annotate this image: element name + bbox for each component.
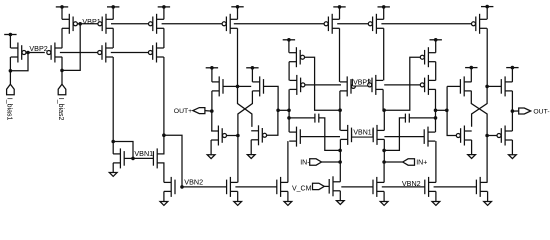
junction node n1b	[485, 85, 489, 89]
svg-text:IN+: IN+	[416, 159, 427, 166]
wire M24 drain to M23 source	[383, 28, 385, 80]
svg-text:VBN1: VBN1	[353, 130, 371, 137]
power stub VDD11	[430, 38, 442, 42]
wire OUT+ port wire	[205, 110, 212, 113]
pmos M5	[98, 43, 113, 63]
power stub VDD1	[4, 33, 16, 37]
wire net VBN2 rail seg6	[434, 186, 477, 188]
wire node n7 to M25 drain	[339, 110, 341, 130]
junction node VBN2 gate	[180, 185, 184, 189]
wire M1 diode feedback	[10, 53, 28, 71]
junction node OUT+	[210, 109, 214, 113]
pmos M21	[340, 76, 355, 96]
junction node inp top	[382, 149, 386, 153]
wire M31 drain down	[435, 89, 437, 132]
wire M34 gate wire	[447, 85, 460, 87]
svg-text:V_CM: V_CM	[292, 185, 312, 192]
wire M32 gate loop	[384, 57, 420, 110]
svg-text:VBP2: VBP2	[29, 44, 47, 53]
wire M29 source to ground	[435, 191, 437, 201]
junction node OUT-	[511, 109, 515, 113]
wire M25 gate to box	[352, 134, 354, 136]
wire M21 gate to box	[354, 85, 357, 87]
wire M15 drain to ground	[250, 140, 252, 155]
pmos M15	[251, 125, 266, 145]
wire net VBN1 wire to M9	[133, 157, 153, 159]
wire M12 gate lead	[223, 85, 238, 87]
pmos M37	[456, 126, 471, 146]
wire M31 gate wire	[384, 84, 420, 86]
junction node M36 gate	[485, 134, 489, 138]
nmos M26	[373, 125, 384, 145]
wire M14 drain to ground	[210, 140, 212, 155]
pmos M19	[290, 75, 305, 95]
wire VDD1 to M1 source	[9, 35, 11, 49]
wire M8 source to ground	[112, 163, 114, 173]
wire M17 source to ground	[287, 191, 289, 201]
ground M36	[509, 155, 517, 159]
wire node n4 to n5	[278, 109, 289, 111]
wire M18 gate loop	[305, 57, 341, 110]
wire M18 drain to M19 source	[288, 62, 290, 81]
pmos M31	[420, 75, 435, 95]
junction node n6b	[434, 116, 438, 120]
nmos M27	[329, 176, 340, 196]
wire M12 drain to OUT+	[211, 91, 213, 111]
wire M17 drain to M20 source	[287, 141, 289, 182]
junction node I_bias2	[60, 69, 64, 73]
wire rail B to M16 drain	[237, 136, 239, 183]
svg-text:I_bias2: I_bias2	[57, 98, 64, 121]
nmos M17	[277, 177, 288, 197]
power stub VDD4	[158, 5, 170, 9]
junction node IN+	[382, 160, 386, 164]
wire M34 gate corner rail	[447, 86, 457, 135]
wire M9 jog to VBN2 gate	[164, 135, 182, 187]
wire M19 gate wire	[305, 84, 341, 86]
nmos M10	[164, 177, 175, 197]
junction node n1	[236, 85, 240, 89]
junction node n7b	[382, 108, 386, 112]
ground M28	[380, 202, 388, 206]
port OUT-	[519, 108, 531, 114]
wire M5 drain to node VBN1d	[112, 57, 114, 142]
wire net VBP1 rail seg4	[337, 23, 368, 25]
power stub VDD6	[206, 66, 218, 70]
wire node n1 wire to M13 area	[238, 85, 252, 87]
wire M14 gate wire	[227, 135, 238, 137]
wire rail B2 to M38 drain	[486, 136, 488, 183]
svg-text:VBN2: VBN2	[402, 179, 421, 188]
wire M26 drain up	[383, 110, 385, 130]
port IN+	[403, 159, 415, 165]
power stub VDD10	[378, 5, 390, 9]
nmos M25	[340, 125, 351, 145]
junction node inm top	[338, 149, 342, 153]
wire C2 left lead	[384, 118, 405, 150]
wire VDD7 to M13 source	[251, 68, 253, 82]
nmos M29	[425, 177, 436, 197]
capacitor C2	[405, 114, 409, 123]
wire IN- port wire	[322, 161, 341, 163]
nmos M16	[227, 177, 238, 197]
wire net VBN2 rail seg5	[382, 186, 425, 188]
wire net VBP2 rail seg2	[60, 52, 98, 54]
junction node n6	[287, 116, 291, 120]
net label box VBN1	[352, 128, 373, 137]
wire VDD2 to M3 source	[61, 7, 63, 19]
junction node VBP2 gate tie	[26, 51, 30, 55]
nmos M28	[373, 177, 384, 197]
power stub VDD8	[283, 38, 295, 42]
wire VDD14 to M35 source	[511, 68, 513, 82]
wire M16 source to ground	[237, 191, 239, 201]
wire net VBN2 rail seg1	[182, 186, 227, 188]
wire M23 drain to node n7b	[382, 89, 384, 110]
ground M14	[207, 155, 215, 159]
svg-text:OUT-: OUT-	[533, 108, 549, 115]
wire M4 drain to M5 source	[112, 28, 114, 48]
power stub VDD7	[246, 66, 258, 70]
power stub VDD2	[56, 5, 68, 9]
ground M37	[468, 155, 476, 159]
pmos M4	[98, 14, 113, 34]
pmos M2	[47, 43, 62, 63]
port OUT+	[193, 108, 205, 114]
wire OUT- to M36 source	[511, 111, 513, 131]
ground M29	[432, 202, 440, 206]
ground M15	[247, 155, 255, 159]
wire net VBN2 rail seg2	[235, 186, 276, 188]
junction node n4b	[445, 109, 449, 113]
pmos M6	[149, 14, 164, 34]
pmos M14	[211, 126, 226, 146]
wire VDD8 to M18 source	[288, 40, 290, 53]
port I_bias2	[58, 84, 66, 95]
wire M35 drain to OUT-	[511, 91, 513, 111]
svg-text:OUT+: OUT+	[174, 108, 192, 115]
wire OUT+ to M14 source	[211, 111, 213, 131]
wire net VBP1 gate wire M3	[77, 23, 80, 25]
wire M15 gate wire	[267, 110, 278, 135]
pmos M33	[472, 14, 487, 34]
nmos M9	[153, 148, 164, 168]
junction node M14 gate	[236, 134, 240, 138]
wire M37 drain to ground	[471, 140, 473, 155]
wire M2 drain to node Ib2	[61, 57, 63, 70]
wire M32 drain to M31 source	[435, 62, 437, 81]
wire I_bias2 port lead	[61, 70, 63, 84]
nmos M20	[289, 127, 300, 147]
junction node n5	[287, 109, 291, 113]
wire VDD10 to M24 source	[383, 7, 385, 19]
wire M27 source to ground	[339, 191, 341, 201]
port I_bias1	[7, 84, 15, 95]
wire M33 drain to node n1b	[486, 28, 488, 86]
wire M8 gate lead	[124, 157, 133, 159]
pmos M23	[368, 75, 383, 95]
wire VDD13 to M34 source	[470, 68, 472, 82]
svg-text:I_bias1: I_bias1	[6, 98, 13, 121]
wire IN+ port wire	[384, 161, 403, 163]
svg-text:IN-: IN-	[300, 159, 310, 166]
pmos M36	[497, 126, 512, 146]
wire M11 drain to node n1	[237, 28, 239, 86]
wire M23 gate from box	[369, 84, 371, 86]
junction node VBN1 drain	[111, 140, 115, 144]
wire net VBP1 rail seg2	[111, 23, 149, 25]
wire VDD4 to M6 source	[163, 7, 165, 19]
ground M38	[484, 202, 492, 206]
wire net VBP1 rail seg5	[381, 23, 471, 25]
wire M28 drain to IN+	[383, 162, 385, 182]
nmos M8	[113, 148, 124, 168]
nmos M38	[476, 177, 487, 197]
wire M36 gate wire	[487, 135, 497, 137]
wire I_bias1 port lead	[9, 71, 11, 84]
junction node n7	[338, 108, 342, 112]
wire C1 left lead	[289, 117, 315, 119]
wire VDD9 to M22 source	[339, 7, 341, 19]
wire OUT- port wire	[512, 110, 518, 112]
pmos M22	[324, 14, 339, 34]
pmos M24	[368, 14, 383, 34]
wire M19 drain down	[288, 89, 290, 132]
junction node IN-	[338, 160, 342, 164]
wire net VBP2 rail seg3	[111, 52, 149, 54]
power stub VDD13	[465, 66, 477, 70]
wire M35 gate wire	[487, 85, 501, 87]
wire VDD12 to M33 source	[486, 7, 488, 20]
wire M10 gate lead	[181, 186, 184, 188]
pmos M32	[420, 47, 435, 67]
nmos M13	[252, 76, 263, 96]
power stub VDD12	[481, 5, 493, 9]
junction node I_bias1	[9, 69, 13, 73]
wire VDD5 to M11 source	[237, 7, 239, 19]
wire net VBP1 rail seg3b	[234, 23, 324, 25]
wire VDD6 to M12 source	[211, 68, 213, 82]
junction node VBP1	[78, 22, 82, 26]
nmos M34	[460, 76, 471, 96]
wire X rail A	[238, 86, 252, 127]
port V_CM	[313, 183, 325, 189]
wire M21 drain to node n7	[339, 91, 341, 130]
wire X2 rail B	[471, 91, 487, 136]
nmos M30	[424, 127, 435, 147]
ground M17	[284, 202, 292, 206]
net label box VBP2	[352, 79, 371, 87]
wire M20 gate wire	[300, 136, 340, 138]
junction node VBN1 gate	[131, 157, 135, 161]
wire VBP1 tie-down to I_bias2	[62, 24, 80, 71]
wire M8 drain lead	[112, 142, 114, 154]
power stub VDD3	[107, 5, 119, 9]
junction node n5b	[434, 109, 438, 113]
wire M29 drain to M30 source	[435, 141, 437, 182]
svg-text:VBN1: VBN1	[134, 149, 153, 158]
ground M27	[336, 201, 344, 205]
nmos M35	[501, 76, 512, 96]
wire M9 source to M10 drain	[163, 163, 165, 183]
wire M3 drain to M2 source	[61, 28, 63, 48]
wire X rail B	[238, 91, 253, 136]
wire M22 drain to M21 source	[339, 28, 341, 82]
wire net VBP1 rail seg1	[80, 23, 98, 25]
wire X2 rail A	[472, 86, 488, 126]
wire node n4b to n5b	[436, 109, 447, 111]
port IN-	[310, 159, 322, 165]
nmos M12	[212, 76, 223, 96]
power stub VDD5	[231, 5, 243, 9]
power stub VDD14	[506, 66, 518, 70]
pmos M3	[62, 14, 77, 34]
wire VDD11 to M32 source	[435, 40, 437, 53]
wire V_CM port wire	[324, 185, 329, 187]
pmos M1	[11, 43, 26, 63]
wire M25 source to node IN- col	[339, 139, 341, 162]
capacitor C1	[315, 114, 319, 123]
wire M26 gate from box	[372, 134, 374, 136]
svg-text:VBN2: VBN2	[184, 178, 203, 187]
junction node n4	[276, 109, 280, 113]
wire M28 source to ground	[383, 191, 385, 201]
ground M16	[234, 202, 242, 206]
wire C2 right lead	[409, 117, 435, 119]
power stub VDD9	[333, 5, 345, 9]
wire M6 drain to M7 source	[163, 28, 165, 48]
pmos M18	[289, 47, 304, 67]
wire M26 source down	[383, 139, 385, 162]
wire M1 drain to node Ib1	[9, 57, 11, 71]
wire M8 diode jog	[113, 142, 133, 159]
wire net VBP2 gate wire M1-M2	[26, 52, 45, 54]
wire M9 drain lead	[163, 135, 165, 154]
wire net VBN2 rail seg4	[341, 186, 373, 188]
wire net VBP1 rail seg3	[162, 23, 223, 25]
pmos M7	[148, 43, 163, 63]
wire node n1 wire emerges to corner	[264, 86, 278, 110]
wire C1 right lead	[319, 118, 340, 150]
junction node VBN2 drain	[162, 133, 166, 137]
wire M27 drain up to IN-	[339, 162, 341, 182]
wire M36 drain to ground	[511, 140, 513, 155]
wire VDD3 to M4 source	[112, 7, 114, 19]
wire M7 drain to node VBN2d	[163, 57, 165, 135]
ground M10	[160, 202, 168, 206]
ground M8	[109, 173, 117, 177]
pmos M11	[222, 14, 237, 34]
wire M38 source to ground	[487, 191, 489, 201]
wire M30 gate wire	[384, 136, 424, 138]
wire M10 source to ground	[163, 191, 165, 201]
